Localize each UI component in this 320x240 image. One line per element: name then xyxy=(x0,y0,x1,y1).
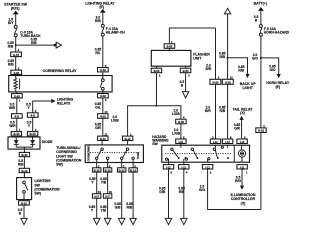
value label 0.85 Y/B xyxy=(100,205,107,213)
node TAIL RELAY (X) label xyxy=(233,107,254,115)
svg-text:4-G: 4-G xyxy=(31,114,35,118)
connector arrow from starter sw xyxy=(13,11,19,15)
svg-text:R/B: R/B xyxy=(8,63,14,67)
value label 0.85 G/B xyxy=(159,187,166,195)
connector I-11 (hazard out 3) xyxy=(202,165,212,170)
wire into combination sw xyxy=(101,141,103,149)
value label 0.5 Y xyxy=(26,102,31,110)
connector X-02 (relay coil top) xyxy=(11,70,22,75)
svg-text:H-7: H-7 xyxy=(105,195,110,199)
wire H-10 to B-12 xyxy=(102,118,104,136)
value label 0.5 W/R xyxy=(9,120,16,128)
svg-text:B-12: B-12 xyxy=(119,168,125,172)
fuse C-0 15A TURN-BACK xyxy=(14,25,41,38)
svg-text:UNIT: UNIT xyxy=(193,57,202,61)
value label 0.85 R/B xyxy=(126,202,133,210)
svg-text:HORN-HAZARD: HORN-HAZARD xyxy=(264,31,290,35)
svg-text:G/B: G/B xyxy=(159,190,165,194)
svg-text:CORNERING RELAY: CORNERING RELAY xyxy=(43,69,78,73)
svg-text:G/R: G/R xyxy=(234,126,240,130)
LIGHTING SW (COMBINATION SW) label xyxy=(34,179,60,196)
svg-text:BATT(+): BATT(+) xyxy=(254,1,267,5)
wire turn sw out3 xyxy=(121,172,123,218)
wire relay contact bottom chain xyxy=(102,92,104,94)
connector B-12 (turn sw top left) xyxy=(98,136,108,141)
value label 0.5 R xyxy=(254,15,259,23)
wire backup light branch xyxy=(228,58,248,74)
wire flasher pin2 to L/GB bus xyxy=(156,73,158,106)
value label 0.5 R/G xyxy=(235,176,241,184)
wire fuse down through junction to H-18 xyxy=(260,36,262,128)
junction node xyxy=(260,57,262,59)
svg-text:H-20: H-20 xyxy=(212,80,218,84)
svg-text:H-10: H-10 xyxy=(100,115,106,119)
connector B-12 (turn sw out 1) xyxy=(93,163,101,173)
svg-text:R/B: R/B xyxy=(8,44,14,48)
value label 0.5 R/B xyxy=(18,159,24,167)
connector I-11 (hazard pin 3) xyxy=(210,139,220,144)
value label 0.85 Y xyxy=(89,205,96,213)
diode pack box xyxy=(8,137,40,149)
svg-text:I-11: I-11 xyxy=(182,165,187,169)
arrow to back up light xyxy=(245,74,249,78)
connector X-02 (coil bottom) xyxy=(12,94,23,99)
wire X-02 to 4-G xyxy=(16,98,18,114)
svg-text:B-12: B-12 xyxy=(130,168,136,172)
lamp (hazard sw illumination) xyxy=(238,150,245,162)
svg-text:R/B: R/B xyxy=(238,69,244,73)
ground arrow (flasher) xyxy=(182,92,188,98)
svg-text:B-12: B-12 xyxy=(105,168,111,172)
connector H-23 xyxy=(222,79,233,84)
svg-text:B-12: B-12 xyxy=(21,169,27,173)
value label 0.5 W/R xyxy=(9,102,16,110)
ground arrow (turn 4) xyxy=(130,218,136,224)
wire flasher feed from wire A xyxy=(169,28,215,44)
connector H-20 xyxy=(210,79,221,84)
wire B-44 to B-12 xyxy=(23,157,25,169)
value label 2.0 L/GB (left drop) xyxy=(111,115,119,123)
wire flasher pin3 to ground xyxy=(185,73,187,92)
connector 4-G right xyxy=(27,113,38,118)
svg-text:(E): (E) xyxy=(275,85,280,89)
svg-text:R/G: R/G xyxy=(235,179,241,183)
svg-text:R/B: R/B xyxy=(95,19,101,23)
svg-text:I-11: I-11 xyxy=(240,140,245,144)
svg-text:X-02: X-02 xyxy=(100,68,106,72)
svg-text:X-02: X-02 xyxy=(13,71,19,75)
svg-text:R/B: R/B xyxy=(18,163,24,167)
wire H-20 to I-11 xyxy=(215,84,217,139)
value label 3.0 R/B xyxy=(95,15,101,23)
connector H-10 (col2) xyxy=(98,114,108,119)
svg-text:B/R: B/R xyxy=(206,67,212,71)
wire A flasher feed down xyxy=(215,28,217,79)
svg-text:LIGHT: LIGHT xyxy=(242,86,253,90)
wire turn sw out4 xyxy=(132,172,134,218)
svg-text:B-44: B-44 xyxy=(21,153,27,157)
svg-text:R/B: R/B xyxy=(127,205,133,209)
svg-text:(K01): (K01) xyxy=(11,6,20,10)
wire horn relay branch xyxy=(261,58,279,74)
connector B-53 (flasher top) xyxy=(164,44,175,49)
svg-text:G/O: G/O xyxy=(199,188,205,192)
arrow to lighting relays xyxy=(51,99,55,103)
wire fuse to X-02 xyxy=(102,36,104,67)
connector H-7 (1) xyxy=(93,190,102,198)
svg-text:G/O: G/O xyxy=(252,56,258,60)
connector B-12 (turn sw out 3) xyxy=(118,163,126,173)
svg-text:R/L: R/L xyxy=(95,51,100,55)
value label 0.85 R/B (above wire) xyxy=(31,37,38,45)
wire B-16 to ground xyxy=(23,205,25,218)
svg-text:SW): SW) xyxy=(34,192,41,196)
svg-text:B-53: B-53 xyxy=(183,69,189,73)
connector I-11 (lamp out) xyxy=(237,165,247,170)
connector B-16 xyxy=(19,201,30,206)
svg-text:SW): SW) xyxy=(56,163,63,167)
svg-text:Y/B: Y/B xyxy=(101,208,107,212)
wire junction to connector H-10 xyxy=(15,45,17,52)
node BACK UP LIGHT label xyxy=(240,82,257,90)
wire hazard out1 to ground xyxy=(168,169,170,218)
svg-text:I-11: I-11 xyxy=(225,140,230,144)
ground arrow (turn 2) xyxy=(104,218,110,224)
wire loop bottom to hazard pin xyxy=(208,169,261,209)
value label 0.85 R/B xyxy=(219,106,226,114)
ground arrow (turn 1) xyxy=(94,218,100,224)
wire into lighting sw xyxy=(23,173,25,182)
hazard sw lamp compartment divider xyxy=(233,145,235,162)
wire battery to fuse F-5 xyxy=(260,11,262,25)
svg-text:G/O: G/O xyxy=(269,68,275,72)
value label 0.85 R/B (left) xyxy=(7,41,14,49)
connector I-11 (hazard out 1) xyxy=(163,162,173,169)
FLASHER UNIT label xyxy=(193,52,210,60)
page connector arrow A xyxy=(54,42,62,48)
connector X-02 (contact bottom) xyxy=(98,94,109,99)
value label 0.5 Y xyxy=(27,120,32,128)
arrow to illumination controller xyxy=(240,186,244,190)
value label 0.5 B xyxy=(180,80,185,88)
connector B-53 (flasher pin 2) xyxy=(151,66,162,73)
connector B-12 (turn sw out 2) xyxy=(103,163,111,173)
node HORN RELAY (E) label xyxy=(266,81,289,89)
value label 0.85 R/L xyxy=(95,47,102,55)
svg-text:I-11: I-11 xyxy=(213,140,218,144)
svg-text:TURN: TURN xyxy=(136,152,140,159)
svg-text:H-10: H-10 xyxy=(13,53,19,57)
connector I-11 (hazard out 2) xyxy=(179,162,189,169)
svg-text:H/LAMP-CH: H/LAMP-CH xyxy=(106,31,126,35)
svg-text:(E): (E) xyxy=(99,5,104,9)
relay U2 CORNERING RELAY box xyxy=(9,69,112,92)
wire LIGHTING RELAYS feed corner xyxy=(33,101,51,113)
node STARTER SW (K01) label xyxy=(4,2,28,10)
wire tail relay to I-11 xyxy=(241,120,243,139)
wire into relay xyxy=(15,75,17,77)
connector H-10 xyxy=(11,52,22,57)
hazard sw contacts xyxy=(165,145,242,162)
wire lamp out to illumination controller xyxy=(241,169,243,186)
svg-text:B-12: B-12 xyxy=(100,137,106,141)
connector I-11 (hazard pin 8) xyxy=(222,139,232,144)
svg-text:Y/B: Y/B xyxy=(101,180,107,184)
wire hazard out2 to ground xyxy=(183,169,185,218)
svg-text:B-12: B-12 xyxy=(125,137,131,141)
wire relay coil out xyxy=(16,92,18,94)
svg-text:B-44: B-44 xyxy=(30,132,36,136)
arrow to tail relay xyxy=(240,116,244,120)
svg-text:R/B: R/B xyxy=(179,190,185,194)
value label 0.5 B xyxy=(18,208,23,216)
svg-text:DIODE: DIODE xyxy=(42,140,53,144)
flasher unit U1 box xyxy=(151,48,191,66)
svg-text:W/R: W/R xyxy=(9,124,16,128)
diode D1 xyxy=(14,136,19,147)
wire H-10 to X-02 xyxy=(15,57,17,71)
value label 2.0 G/O (loop) xyxy=(199,185,205,193)
svg-text:B-16: B-16 xyxy=(21,201,27,205)
connector B-53 (flasher pin 3) xyxy=(180,66,191,73)
junction node xyxy=(15,44,17,46)
value label 0.85 R/B xyxy=(238,65,245,73)
wire turn sw out2 xyxy=(107,172,109,218)
svg-text:I-11: I-11 xyxy=(205,165,210,169)
connector X-02 (relay contact top) xyxy=(98,68,109,73)
relay coil symbol xyxy=(14,76,20,92)
svg-text:R/B: R/B xyxy=(219,109,225,113)
value label 0.85 R/B xyxy=(219,52,226,60)
svg-text:W/R: W/R xyxy=(9,106,16,110)
svg-text:R/B: R/B xyxy=(31,41,37,45)
svg-text:B-44: B-44 xyxy=(13,132,19,136)
ground arrow (hazard 1) xyxy=(165,218,171,224)
svg-text:L/GB: L/GB xyxy=(172,112,180,116)
connector B-12 (turn sw out 4) xyxy=(129,163,137,173)
connector 4-G left xyxy=(12,114,23,119)
value label 0.85 G/O xyxy=(269,65,276,73)
value label 2.0 G/O xyxy=(252,53,258,61)
wire down to fuse F-4 xyxy=(102,12,104,24)
connector B-44 right xyxy=(27,132,37,137)
HAZARD WARNING SW label xyxy=(152,135,169,146)
wire 4-G to B-44 xyxy=(16,118,18,131)
connector H-18 xyxy=(256,128,266,133)
wire R/B feed down xyxy=(227,14,229,79)
connector B-44 left xyxy=(11,132,21,137)
svg-text:H-23: H-23 xyxy=(225,80,231,84)
ground arrow (lighting sw) xyxy=(21,218,27,224)
svg-text:H-35: H-35 xyxy=(178,120,184,124)
svg-text:B-53: B-53 xyxy=(154,69,160,73)
value label 0.85 R/B xyxy=(8,59,15,66)
svg-text:I-11: I-11 xyxy=(166,165,171,169)
svg-text:I-11: I-11 xyxy=(179,140,184,144)
wire horizontal to page connector A xyxy=(16,44,54,46)
svg-text:L/GB: L/GB xyxy=(172,132,180,136)
svg-text:B-12: B-12 xyxy=(94,168,100,172)
value label 0.5 G/B xyxy=(89,177,96,185)
connector arrow from battery xyxy=(258,7,264,11)
svg-text:(X): (X) xyxy=(240,111,245,115)
svg-text:H-7: H-7 xyxy=(95,195,100,199)
svg-text:R/B: R/B xyxy=(219,55,225,59)
wire H-23 to I-11 xyxy=(227,84,229,139)
node ILLUMINATION CONTROLLER (X) label xyxy=(231,193,256,205)
connector H-7 (2) xyxy=(103,190,112,198)
diode D2 xyxy=(30,136,35,147)
value label 0.85 G/L xyxy=(95,102,102,110)
svg-text:G/B: G/B xyxy=(115,205,121,209)
value label 0.85 R/B xyxy=(178,187,185,195)
fuse F-5 10A HORN-HAZARD xyxy=(259,25,289,37)
value label 0.85 G/R xyxy=(95,122,102,130)
wire turn sw out1 xyxy=(96,172,98,218)
switch S3 HAZARD WARNING SW box xyxy=(162,145,250,162)
wire 4-G to B-44 xyxy=(32,117,34,131)
svg-text:G/L: G/L xyxy=(95,106,101,110)
switch S1 LIGHTING SW box xyxy=(17,178,32,200)
connector arrow from lighting relay xyxy=(100,9,106,13)
wire H-18 down (loop right leg) xyxy=(260,133,262,210)
svg-text:(X): (X) xyxy=(241,201,246,205)
value label 2.0 B/R xyxy=(205,106,211,114)
wire starter sw down to fuse C-0 xyxy=(15,14,17,26)
value label 0.85 G/R xyxy=(234,123,241,130)
node LIGHTING RELAYS label xyxy=(57,98,74,106)
svg-text:SW: SW xyxy=(152,142,158,146)
TURN-SIGNAL/CORNERING LIGHT SW label xyxy=(56,146,82,166)
value label 2.0 L/GB (right drop upper) xyxy=(172,109,180,117)
svg-text:RELAYS: RELAYS xyxy=(57,102,71,106)
svg-text:L/GB: L/GB xyxy=(111,119,119,123)
svg-text:I-11: I-11 xyxy=(240,165,245,169)
junction node on L/GB bus xyxy=(155,105,157,107)
svg-text:G/R: G/R xyxy=(95,126,101,130)
connector H-35 xyxy=(176,119,186,124)
svg-text:B-53: B-53 xyxy=(167,45,173,49)
svg-text:CORNERING: CORNERING xyxy=(87,146,91,162)
value label 0.85 G/B xyxy=(114,202,121,210)
wire into combination sw xyxy=(127,141,129,149)
svg-text:H-18: H-18 xyxy=(258,129,264,133)
node LIGHTING RELAY (E) label xyxy=(85,1,115,9)
wire diode join xyxy=(16,147,32,152)
wire H-35 to I-11 xyxy=(180,124,182,139)
wire fuse to junction xyxy=(15,37,17,45)
connector I-11 (hazard pin 5) xyxy=(176,139,186,144)
wire X-02 to H-10 xyxy=(102,98,104,114)
fuse F-4 15A H/LAMP-CH xyxy=(101,24,125,36)
switch S2 TURN-SIGNAL/CORNERING box xyxy=(85,145,143,163)
connector I-11 (hazard pin 2) xyxy=(237,139,247,144)
ground arrow (turn 3) xyxy=(119,218,125,224)
svg-text:B/Y: B/Y xyxy=(8,21,14,25)
connector B-12 (lighting sw) xyxy=(19,168,29,173)
relay contact symbol xyxy=(100,76,104,92)
value label 1.5 B/Y xyxy=(8,17,14,25)
svg-text:B/R: B/R xyxy=(205,109,211,113)
wire into relay xyxy=(102,72,104,76)
svg-text:4-G: 4-G xyxy=(15,114,19,118)
wire into hazard sw xyxy=(180,144,182,148)
connector B-44 center xyxy=(19,152,29,157)
junction node backup branch xyxy=(227,57,229,59)
value label 2.0 L/GB (right drop lower) xyxy=(172,128,180,136)
arrow to horn relay xyxy=(277,74,281,78)
wire L/GB bus horizontal xyxy=(128,106,181,136)
value label 2.0 B/R xyxy=(206,64,212,72)
turn sw contacts xyxy=(90,148,141,163)
connector B-12 (turn sw top right) xyxy=(122,136,132,141)
ground arrow (hazard 2) xyxy=(181,218,187,224)
page connector arrow (top, R/B feed) xyxy=(224,8,230,14)
value label 0.85 G/B xyxy=(100,177,107,185)
